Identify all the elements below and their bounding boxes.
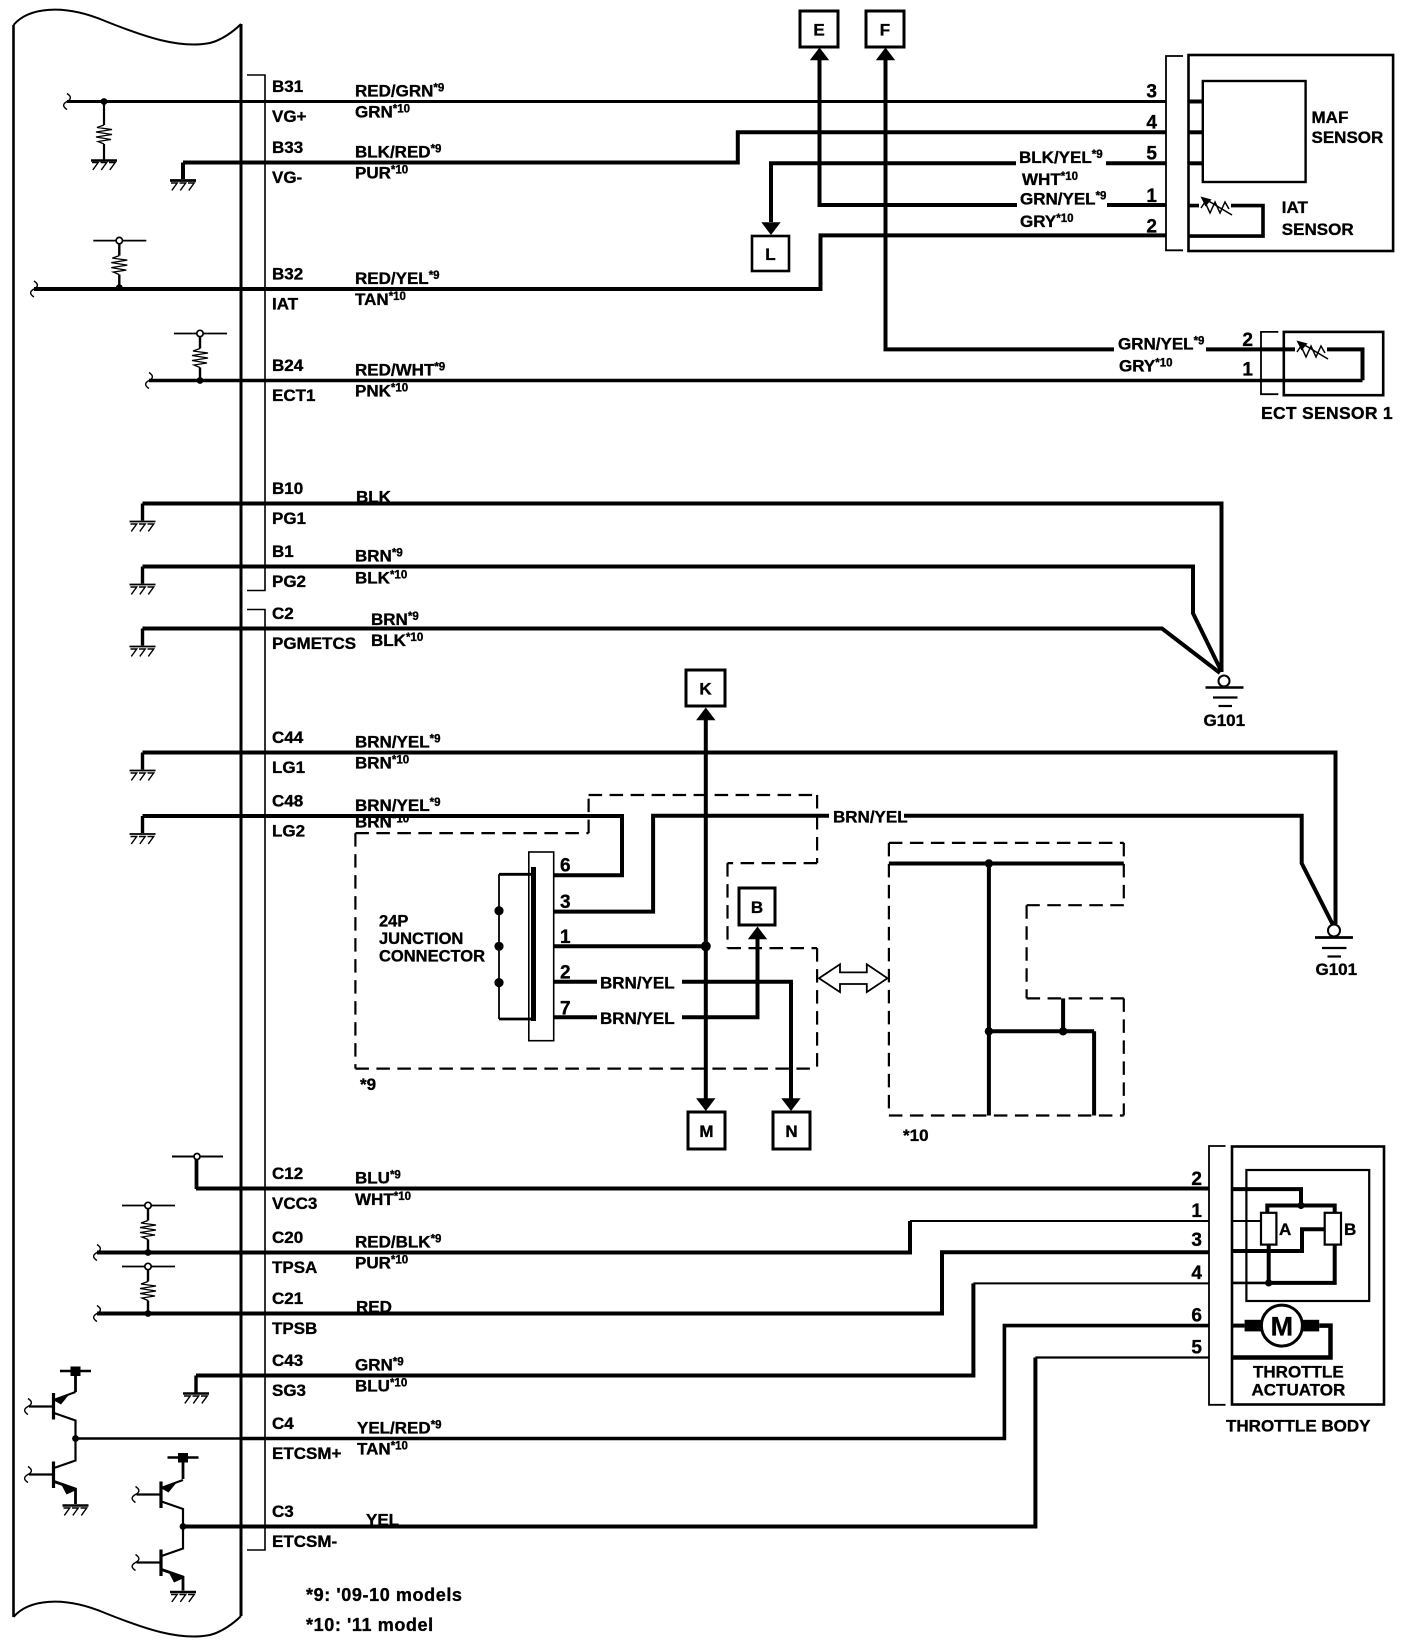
svg-text:PG1: PG1	[272, 509, 306, 528]
junction dot sensor bottom node	[1265, 1279, 1272, 1286]
wire C3 thin segment to pin 5	[1035, 1356, 1209, 1358]
wire throttle pin 1 stub to resistor A	[1232, 1220, 1261, 1222]
svg-text:L: L	[765, 245, 775, 264]
resistor B	[1325, 1213, 1341, 1245]
24P pin 1 stub to K/M wire	[554, 944, 706, 948]
svg-text:B33: B33	[272, 138, 303, 157]
svg-text:1: 1	[1191, 1201, 1202, 1222]
wire B24 ECT1 to ECT sensor pin 1	[149, 379, 1363, 383]
wire C43 SG3 to throttle body pin 4	[196, 1283, 973, 1375]
ground below Q2 emitter	[63, 1506, 89, 1516]
svg-text:M: M	[699, 1122, 713, 1141]
svg-text:SG3: SG3	[272, 1381, 306, 1400]
pull-up resistor to 5V on C20	[122, 1202, 175, 1256]
svg-text:VG-: VG-	[272, 168, 302, 187]
svg-text:THROTTLE BODY: THROTTLE BODY	[1226, 1417, 1371, 1436]
node junction C4 driver output	[72, 1435, 79, 1442]
svg-text:C44: C44	[272, 728, 304, 747]
dashed enclosure *9	[355, 795, 817, 1069]
svg-text:YEL: YEL	[366, 1511, 399, 1530]
svg-text:GRN*10: GRN*10	[355, 103, 410, 122]
svg-text:6: 6	[1191, 1306, 1202, 1327]
svg-text:ACTUATOR: ACTUATOR	[1252, 1381, 1346, 1400]
arrow into connector F	[876, 48, 895, 61]
svg-text:G101: G101	[1204, 711, 1246, 730]
svg-text:2: 2	[560, 963, 571, 984]
wire B31 VG+ to MAF pin 3	[67, 100, 1166, 103]
svg-text:2: 2	[1242, 330, 1253, 351]
svg-text:7: 7	[560, 999, 571, 1020]
svg-text:BRN/YEL: BRN/YEL	[600, 974, 675, 993]
wire B33 VG- to MAF pin 4	[183, 132, 1166, 162]
break symbol B32 wire left end	[31, 281, 38, 297]
24P junction connector left jumper	[499, 874, 534, 1019]
svg-text:RED/BLK*9: RED/BLK*9	[355, 1233, 441, 1252]
svg-text:BRN*10: BRN*10	[355, 813, 409, 832]
ECM/PCM box torn top edge	[14, 10, 242, 45]
wire C21 TPSB to throttle body pin 3	[97, 1252, 1209, 1313]
svg-text:*9: '09-10 models: *9: '09-10 models	[306, 1585, 463, 1605]
arrow into connector L	[761, 222, 780, 235]
sensor bottom rail and resistor B stem	[1269, 1245, 1335, 1283]
wire C43 thin segment to pin 4	[973, 1282, 1209, 1284]
svg-text:B31: B31	[272, 77, 303, 96]
break symbol Q1 base	[25, 1399, 32, 1415]
svg-text:TAN*10: TAN*10	[357, 1440, 408, 1459]
svg-text:BLK*10: BLK*10	[371, 631, 423, 650]
pull-up resistor to 5V on B24	[174, 330, 227, 384]
ground at C44 wire start	[130, 753, 156, 781]
MAF sensor connector bracket	[1166, 56, 1183, 250]
svg-text:5: 5	[1191, 1338, 1202, 1359]
svg-text:*9: *9	[360, 1075, 376, 1094]
wire C20 TPSA to throttle body pin 1	[97, 1221, 910, 1253]
svg-text:ECT SENSOR 1: ECT SENSOR 1	[1261, 403, 1393, 423]
wire color label BRN/YEL on pin 7 stub	[597, 1007, 682, 1029]
svg-text:GRN/YEL*9: GRN/YEL*9	[1020, 190, 1106, 209]
ground at C48 wire start	[130, 816, 156, 844]
junction dot pin 1 bus	[494, 942, 503, 951]
ECM/PCM box right edge	[240, 24, 243, 1616]
svg-text:5: 5	[1146, 144, 1157, 165]
throttle body outer box	[1232, 1147, 1384, 1405]
svg-text:4: 4	[1191, 1263, 1202, 1284]
connector box N	[773, 1112, 810, 1149]
svg-text:WHT*10: WHT*10	[1022, 170, 1078, 189]
svg-text:GRY*10: GRY*10	[1020, 212, 1074, 231]
node junction on B31 wire	[101, 98, 108, 105]
break symbol C20 wire left end	[94, 1245, 101, 1261]
svg-text:BLK*10: BLK*10	[355, 569, 407, 588]
transistor Q4 lower (NPN)	[137, 1527, 185, 1591]
svg-text:K: K	[699, 680, 712, 699]
svg-text:1: 1	[1146, 186, 1157, 207]
junction dot pin 2 bus	[494, 978, 503, 987]
svg-text:3: 3	[560, 892, 571, 913]
wire C3 ETCSM- to throttle body pin 5	[183, 1358, 1035, 1527]
svg-text:PNK*10: PNK*10	[355, 382, 408, 401]
svg-text:BRN/YEL*9: BRN/YEL*9	[355, 733, 441, 752]
svg-text:VCC3: VCC3	[272, 1194, 317, 1213]
junction dot *10 top	[985, 859, 993, 867]
svg-text:RED/WHT*9: RED/WHT*9	[355, 361, 445, 380]
wire 24P pin 7 BRN/YEL to connector B	[554, 939, 758, 1017]
connector box L	[752, 236, 789, 271]
ground at C2 wire start	[130, 629, 156, 657]
svg-text:*10: *10	[903, 1126, 929, 1145]
wire B32 IAT to IAT sensor pin 2	[34, 235, 1166, 289]
resistor A bottom stem	[1267, 1245, 1271, 1283]
arrow into connector M	[696, 1098, 715, 1111]
svg-text:B1: B1	[272, 542, 294, 561]
connector bracket C-group	[247, 610, 265, 1551]
throttle body connector bracket	[1209, 1146, 1226, 1405]
svg-text:BRN/YEL: BRN/YEL	[600, 1009, 675, 1028]
double-headed arrow between *9 and *10	[819, 964, 888, 992]
transistor Q2 lower (NPN)	[29, 1439, 77, 1505]
svg-text:PUR*10: PUR*10	[355, 164, 408, 183]
svg-text:C4: C4	[272, 1414, 294, 1433]
svg-text:B24: B24	[272, 356, 304, 375]
5V supply symbol on C12	[172, 1154, 223, 1190]
throttle motor M	[1245, 1305, 1320, 1346]
junction dot *10 mid left	[985, 1027, 993, 1035]
wire C2 PGMETCS to G101	[143, 629, 1221, 674]
MAF pin 4 stub	[1189, 130, 1203, 134]
svg-text:TPSB: TPSB	[272, 1319, 317, 1338]
pull-up resistor to 5V on B32	[93, 237, 146, 291]
junction dot sensor top node	[1297, 1202, 1304, 1209]
resistor pull-down on B31	[96, 102, 112, 161]
junction dot *10 mid right	[1059, 1027, 1067, 1035]
svg-text:C48: C48	[272, 792, 303, 811]
dashed enclosure *10	[889, 843, 1124, 1116]
svg-text:SENSOR: SENSOR	[1312, 128, 1384, 147]
svg-text:JUNCTION: JUNCTION	[379, 930, 463, 948]
ground G101 upper	[1206, 676, 1244, 707]
arrow into connector K	[696, 708, 715, 721]
svg-text:BLK/YEL*9: BLK/YEL*9	[1019, 148, 1103, 167]
wire connector K to connector M through 24P pin 1	[704, 719, 708, 1100]
wire *10 stub from notch	[1061, 998, 1065, 1031]
ground at C43 wire start	[183, 1376, 209, 1404]
svg-text:A: A	[1279, 1220, 1291, 1239]
svg-text:ETCSM-: ETCSM-	[272, 1532, 337, 1551]
MAF sensor element box	[1203, 81, 1306, 182]
svg-text:C43: C43	[272, 1351, 303, 1370]
svg-text:2: 2	[1191, 1169, 1202, 1190]
svg-text:LG2: LG2	[272, 822, 305, 841]
wire C44 LG1 to G101	[143, 753, 1336, 925]
wire throttle pin 4 stub	[1232, 1282, 1269, 1285]
power symbol above Q1	[60, 1367, 91, 1393]
svg-text:ECT1: ECT1	[272, 386, 315, 405]
svg-text:C2: C2	[272, 604, 294, 623]
24P junction connector housing	[529, 852, 554, 1041]
wire C20 thin segment to pin 1	[910, 1220, 1209, 1222]
break symbol B24 wire left end	[146, 373, 153, 389]
wire color label GRN/YEL*9 on ECT pin 2 wire	[1114, 333, 1206, 354]
svg-text:BRN*9: BRN*9	[355, 547, 403, 566]
svg-text:THROTTLE: THROTTLE	[1253, 1363, 1344, 1382]
svg-text:BLK/RED*9: BLK/RED*9	[355, 143, 441, 162]
connector box F	[866, 11, 904, 47]
pull-up resistor to 5V on C21	[122, 1263, 175, 1317]
MAF sensor outer box	[1189, 55, 1394, 251]
svg-text:RED/GRN*9: RED/GRN*9	[355, 82, 444, 101]
svg-text:GRN/YEL*9: GRN/YEL*9	[1118, 335, 1204, 354]
svg-text:24P: 24P	[379, 913, 408, 931]
svg-text:PG2: PG2	[272, 572, 306, 591]
svg-text:TAN*10: TAN*10	[355, 290, 406, 309]
svg-text:SENSOR: SENSOR	[1282, 220, 1354, 239]
ECM/PCM box torn bottom edge	[14, 1602, 242, 1637]
ground at B1 wire start	[130, 567, 156, 595]
IAT thermistor element	[1199, 197, 1232, 216]
svg-text:VG+: VG+	[272, 107, 307, 126]
ground at B10 wire start	[130, 504, 156, 532]
connector box K	[686, 670, 725, 706]
svg-text:N: N	[785, 1122, 797, 1141]
connector box E	[800, 11, 838, 47]
svg-text:E: E	[813, 21, 824, 40]
transistor Q3 upper (PNP)	[137, 1480, 184, 1527]
svg-text:B: B	[751, 898, 763, 917]
svg-text:IAT: IAT	[272, 295, 299, 314]
svg-text:1: 1	[1242, 360, 1253, 381]
ground G101 lower	[1315, 925, 1353, 957]
MAF pin 3 stub	[1189, 100, 1203, 104]
wire *10 top bus	[889, 862, 1124, 866]
wire B10 PG1 BLK to G101	[143, 504, 1222, 673]
connector box B	[739, 888, 775, 925]
svg-text:LG1: LG1	[272, 758, 305, 777]
svg-text:BLU*10: BLU*10	[355, 1377, 407, 1396]
svg-text:G101: G101	[1316, 960, 1358, 979]
svg-text:RED/YEL*9: RED/YEL*9	[355, 269, 440, 288]
resistor A	[1261, 1213, 1276, 1245]
wire *10 center vertical	[987, 864, 991, 1116]
wire C12 VCC3 to throttle body pin 2	[196, 1187, 1209, 1191]
ECT sensor box	[1284, 332, 1383, 395]
wire throttle pin 3 to resistor B wiper	[1232, 1229, 1325, 1251]
break symbol B31 wire left end	[64, 94, 71, 110]
ground below Q4 emitter	[170, 1592, 196, 1602]
svg-text:4: 4	[1146, 113, 1157, 134]
svg-text:3: 3	[1146, 82, 1157, 103]
arrow into connector N	[781, 1098, 800, 1111]
power symbol above Q3	[168, 1453, 199, 1479]
wire MAF pin 1 GRN/YEL to connector E	[820, 59, 1167, 205]
svg-text:GRY*10: GRY*10	[1119, 357, 1173, 376]
break symbol Q4 base	[132, 1555, 139, 1571]
svg-text:PGMETCS: PGMETCS	[272, 634, 356, 653]
ground at B33 wire start	[170, 163, 196, 191]
wire throttle pin 6 stub to motor	[1232, 1324, 1245, 1328]
svg-text:C3: C3	[272, 1502, 294, 1521]
break symbol C21 wire left end	[94, 1306, 101, 1322]
svg-text:TPSA: TPSA	[272, 1258, 317, 1277]
svg-text:*10: '11 model: *10: '11 model	[306, 1615, 434, 1635]
svg-text:BLK: BLK	[356, 488, 392, 507]
break symbol Q2 base	[25, 1467, 32, 1483]
wire BRN/YEL from 24P pin 3 to G101	[554, 816, 1333, 925]
wire ECT pin 2 GRN/YEL to connector F	[886, 59, 1363, 380]
transistor Q1 upper (PNP)	[29, 1392, 76, 1439]
ECT sensor connector bracket	[1261, 332, 1278, 394]
wire 24P pin 2 BRN/YEL to connector N	[554, 982, 791, 1100]
node junction C3 driver output	[180, 1523, 187, 1530]
arrow into connector B	[748, 927, 767, 940]
wire C4 ETCSM+ to throttle body pin 6	[241, 1326, 1209, 1439]
svg-text:CONNECTOR: CONNECTOR	[379, 948, 485, 966]
sensor top rail	[1267, 1206, 1334, 1213]
wire color label GRN/YEL*9 on MAF pin 1 wire	[1017, 188, 1107, 209]
break symbol Q3 base	[132, 1487, 139, 1503]
svg-text:3: 3	[1191, 1230, 1202, 1251]
wire C4 ETCSM+ inside ECM (thin)	[76, 1437, 242, 1440]
svg-text:MAF: MAF	[1312, 108, 1349, 127]
ground below B31 resistor	[91, 161, 117, 170]
svg-text:2: 2	[1146, 217, 1157, 238]
wire color label BLK/YEL*9 on MAF pin 5 wire	[1016, 147, 1106, 167]
connector bracket B-group	[247, 75, 265, 591]
svg-text:BRN*10: BRN*10	[355, 754, 409, 773]
junction dot pin 3 bus	[494, 906, 503, 915]
svg-text:F: F	[880, 21, 890, 40]
junction dot pin 1 on K/M wire	[701, 941, 711, 951]
MAF pin 5 stub	[1189, 161, 1203, 165]
svg-text:WHT*10: WHT*10	[355, 1190, 411, 1209]
svg-text:B10: B10	[272, 479, 303, 498]
throttle position sensor inner box	[1246, 1170, 1369, 1301]
svg-text:C21: C21	[272, 1289, 303, 1308]
svg-text:C12: C12	[272, 1164, 303, 1183]
ECT thermistor element	[1295, 341, 1328, 360]
svg-text:6: 6	[560, 856, 571, 877]
svg-text:GRN*9: GRN*9	[355, 1356, 404, 1375]
svg-text:YEL/RED*9: YEL/RED*9	[357, 1419, 442, 1438]
wire MAF pin 5 BLK/YEL to connector L	[771, 163, 1166, 222]
svg-text:RED: RED	[356, 1298, 392, 1317]
svg-text:PUR*10: PUR*10	[355, 1254, 408, 1273]
wire *10 mid horizontal	[989, 1029, 1094, 1033]
wire throttle pin 2 to sensor top node	[1232, 1189, 1301, 1205]
wire B1 PG2 to G101	[143, 567, 1222, 672]
IAT sensor loop wire	[1189, 206, 1264, 237]
svg-text:M: M	[1271, 1312, 1294, 1342]
svg-text:BLU*9: BLU*9	[355, 1169, 401, 1188]
connector box M	[688, 1112, 725, 1149]
wire *10 right vertical	[1092, 1031, 1096, 1115]
svg-text:IAT: IAT	[1282, 198, 1309, 217]
24P junction connector bus bar	[531, 867, 536, 1021]
wire motor return to throttle pin 5	[1232, 1326, 1331, 1358]
svg-text:BRN/YEL: BRN/YEL	[833, 808, 908, 827]
svg-text:B32: B32	[272, 265, 303, 284]
svg-text:B: B	[1344, 1220, 1356, 1239]
svg-text:C20: C20	[272, 1228, 303, 1247]
wire color label BRN/YEL on pin 2 stub	[597, 971, 682, 993]
wire color label BRN/YEL mid-span	[829, 804, 908, 827]
wire C48 LG2 into 24P junction connector pin 6	[143, 816, 623, 875]
ECM/PCM box left edge	[12, 25, 15, 1617]
svg-text:1: 1	[560, 927, 571, 948]
svg-text:ETCSM+: ETCSM+	[272, 1444, 342, 1463]
svg-text:BRN*9: BRN*9	[371, 610, 419, 629]
arrow into connector E	[810, 48, 829, 61]
